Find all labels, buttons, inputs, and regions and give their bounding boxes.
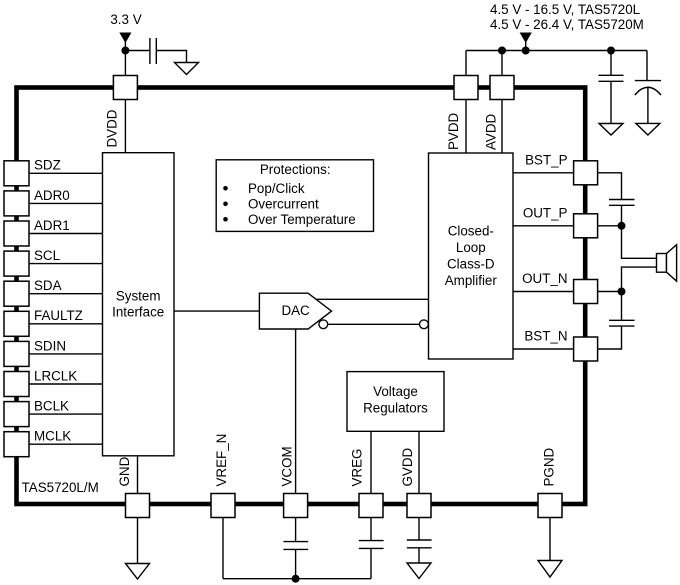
svg-text:System: System <box>116 289 161 304</box>
svg-text:4.5 V - 26.4 V, TAS5720M: 4.5 V - 26.4 V, TAS5720M <box>490 17 644 32</box>
capacitor C5 bootstrap N <box>609 320 635 326</box>
node VCOM rail junction <box>292 575 299 582</box>
speaker LS1 <box>657 245 677 282</box>
node 3.3V junction <box>122 47 129 54</box>
wire ADR1 <box>29 233 103 235</box>
wire PGND to ground <box>549 518 551 561</box>
svg-text:ADR0: ADR0 <box>34 188 70 203</box>
svg-text:Overcurrent: Overcurrent <box>248 196 319 211</box>
wire DVDD to System Interface <box>124 100 126 153</box>
wire supply rail <box>466 50 647 52</box>
wire System Interface to GND pin <box>137 456 139 494</box>
svg-text:BCLK: BCLK <box>34 399 69 414</box>
wire C1 to ground <box>156 51 186 63</box>
node supply arrow junction <box>522 47 529 54</box>
DAC U2 <box>259 293 331 329</box>
capacitor C2 <box>599 75 624 81</box>
svg-text:Protections:: Protections: <box>260 162 331 177</box>
wire DAC to VCOM <box>295 329 297 494</box>
pin FAULTZ <box>4 311 29 336</box>
pin AVDD <box>490 76 514 100</box>
ground DVDD decoupling <box>175 63 199 75</box>
pin GVDD <box>407 494 431 518</box>
supply arrow PVDD/AVDD <box>521 33 531 42</box>
svg-text:Closed-: Closed- <box>448 224 494 239</box>
block Closed-Loop Class-D Amplifier <box>429 153 514 359</box>
wire amplifier to OUT_P <box>513 225 574 227</box>
wire OUT_N node to C5 <box>621 292 623 321</box>
svg-text:Regulators: Regulators <box>363 401 428 416</box>
pin GND <box>126 494 150 518</box>
svg-text:ADR1: ADR1 <box>34 218 70 233</box>
block System Interface <box>103 153 175 456</box>
svg-text:TAS5720L/M: TAS5720L/M <box>22 480 99 495</box>
wire DAC top to amplifier <box>316 298 429 300</box>
pin OUT_P <box>574 214 598 238</box>
block Voltage Regulators <box>347 372 444 432</box>
wire OUT_P to node <box>598 225 622 227</box>
svg-text:BST_N: BST_N <box>524 329 567 344</box>
wire bottom rail VREF_N to VREG <box>223 578 371 580</box>
ground GVDD <box>407 563 431 579</box>
wire amplifier to OUT_N <box>513 291 574 293</box>
wire rail to C2 <box>610 51 612 76</box>
wire GVDD to C8 <box>418 518 420 541</box>
svg-text:OUT_N: OUT_N <box>522 271 567 286</box>
wire C2 to ground <box>610 81 612 123</box>
pin PGND <box>538 494 562 518</box>
svg-text:SDA: SDA <box>34 278 62 293</box>
pin VREF_N <box>211 494 235 518</box>
IC boundary TAS5720L/M <box>17 88 586 505</box>
pin LRCLK <box>4 372 29 397</box>
wire amplifier to BST_P <box>513 172 574 174</box>
pin VCOM <box>284 494 308 518</box>
capacitor C7 VREG <box>359 541 384 549</box>
wire OUT_N node to speaker <box>622 267 657 291</box>
svg-text:SDIN: SDIN <box>34 338 66 353</box>
node AVDD branch <box>499 47 506 54</box>
node OUT_N <box>618 288 625 295</box>
ground C3 <box>636 123 660 135</box>
wire C6 to rail <box>295 549 297 578</box>
pin MCLK <box>4 432 29 457</box>
wire C4 to OUT_P node <box>621 205 623 226</box>
wire C5 to BST_N <box>598 326 622 349</box>
node C2 branch <box>608 47 615 54</box>
wire OUT_P node to speaker <box>622 226 657 258</box>
ground PGND <box>538 561 562 578</box>
pin SDA <box>4 281 29 306</box>
wire SCL <box>29 263 103 265</box>
pin ADR0 <box>4 191 29 216</box>
svg-text:Class-D: Class-D <box>447 257 495 272</box>
svg-text:SDZ: SDZ <box>34 158 61 173</box>
wire supply arrow stem <box>525 42 527 51</box>
svg-text:PGND: PGND <box>541 447 556 486</box>
wire VREF_N drop <box>222 518 224 579</box>
svg-text:FAULTZ: FAULTZ <box>34 308 83 323</box>
wire VREG to C7 <box>370 518 372 541</box>
capacitor C6 VCOM <box>283 542 308 550</box>
wire VCOM to C6 <box>295 518 297 542</box>
wire BST_P to C4 <box>598 173 622 200</box>
wire SDA <box>29 293 103 295</box>
svg-text:SCL: SCL <box>34 248 60 263</box>
node OUT_P <box>618 223 625 230</box>
svg-text:GVDD: GVDD <box>400 447 415 486</box>
svg-text:GND: GND <box>117 456 132 486</box>
capacitor C3 polarized <box>635 81 661 95</box>
wire LRCLK <box>29 383 103 385</box>
svg-text:PVDD: PVDD <box>446 112 461 150</box>
capacitor C1 DVDD decoupling <box>150 38 156 64</box>
pin ADR1 <box>4 221 29 246</box>
svg-text:VREG: VREG <box>350 449 365 487</box>
wire C3 to ground <box>647 88 649 124</box>
svg-text:Loop: Loop <box>456 240 486 255</box>
pin SDZ <box>4 161 29 186</box>
svg-text:VCOM: VCOM <box>280 446 295 486</box>
wire BCLK <box>29 413 103 415</box>
wire PVDD to amplifier <box>465 100 467 154</box>
wire Voltage Regulators to VREG pin <box>370 431 372 493</box>
pin BCLK <box>4 402 29 427</box>
ground C2 <box>599 124 623 136</box>
pin VREG <box>359 494 383 518</box>
svg-text:DVDD: DVDD <box>105 109 120 147</box>
svg-text:LRCLK: LRCLK <box>34 368 77 383</box>
svg-text:Amplifier: Amplifier <box>445 273 498 288</box>
wire ADR0 <box>29 202 103 204</box>
pin SCL <box>4 251 29 276</box>
block Protections <box>216 160 373 232</box>
wire rail to PVDD <box>465 51 467 76</box>
svg-text:Voltage: Voltage <box>373 384 418 399</box>
wire AVDD to amplifier <box>501 100 503 154</box>
wire GND to ground <box>137 518 139 564</box>
pin OUT_N <box>574 280 598 304</box>
pin SDIN <box>4 341 29 366</box>
svg-text:Pop/Click: Pop/Click <box>248 181 305 196</box>
wire rail to C3 <box>646 51 648 81</box>
wire 3.3V to DVDD pin <box>124 42 126 76</box>
pin BST_N <box>574 337 598 361</box>
pin BST_P <box>574 161 598 185</box>
wire FAULTZ <box>29 323 103 325</box>
wire rail to AVDD <box>501 51 503 76</box>
wire C7 to rail <box>370 548 372 578</box>
svg-text:OUT_P: OUT_P <box>523 205 568 220</box>
supply arrow 3.3V <box>120 33 130 42</box>
svg-text:AVDD: AVDD <box>483 113 498 150</box>
svg-text:Over Temperature: Over Temperature <box>248 212 356 227</box>
svg-text:Interface: Interface <box>112 305 164 320</box>
svg-text:3.3 V: 3.3 V <box>110 12 141 27</box>
wire amplifier to BST_N <box>513 348 574 350</box>
capacitor C8 GVDD <box>407 540 432 548</box>
capacitor C4 bootstrap P <box>609 200 635 206</box>
amplifier input bubble <box>420 320 429 329</box>
pin PVDD <box>454 76 478 100</box>
svg-text:4.5 V - 16.5 V, TAS5720L: 4.5 V - 16.5 V, TAS5720L <box>490 2 640 17</box>
svg-text:VREF_N: VREF_N <box>214 434 229 487</box>
svg-text:MCLK: MCLK <box>34 429 71 444</box>
wire node to C1 <box>125 50 149 52</box>
ground GND <box>126 564 150 580</box>
svg-text:BST_P: BST_P <box>525 152 567 167</box>
wire DAC bubble to amplifier bubble <box>328 323 420 325</box>
wire C8 to ground <box>418 548 420 563</box>
wire MCLK <box>29 443 103 445</box>
wire SDIN <box>29 353 103 355</box>
wire SDZ <box>29 172 103 174</box>
svg-text:DAC: DAC <box>281 303 310 318</box>
wire System Interface to DAC <box>174 310 259 312</box>
DAC output bubble <box>319 320 328 329</box>
wire Voltage Regulators to GVDD pin <box>418 431 420 493</box>
wire OUT_N to node <box>598 291 622 293</box>
pin DVDD <box>113 76 137 100</box>
